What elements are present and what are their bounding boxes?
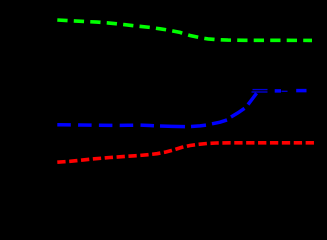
blue rise dash a xyxy=(191,125,206,126)
blue dashed curve (middle), flat then slight dip xyxy=(57,125,156,126)
blue dip long dash xyxy=(160,124,185,128)
blue rise dash d (steep) xyxy=(248,93,257,104)
blue thin ringing line lower xyxy=(252,91,268,93)
blue thin ringing line upper xyxy=(253,89,268,91)
red dashed curve (bottom) xyxy=(57,143,315,162)
blue plateau thin tail xyxy=(282,90,288,92)
blue rise dash b xyxy=(212,120,227,124)
green dashed curve (top) xyxy=(57,20,312,40)
blue rise dash c xyxy=(231,108,245,117)
blue plateau dash 1 xyxy=(275,89,281,93)
blue plateau dash 2 xyxy=(296,89,306,93)
